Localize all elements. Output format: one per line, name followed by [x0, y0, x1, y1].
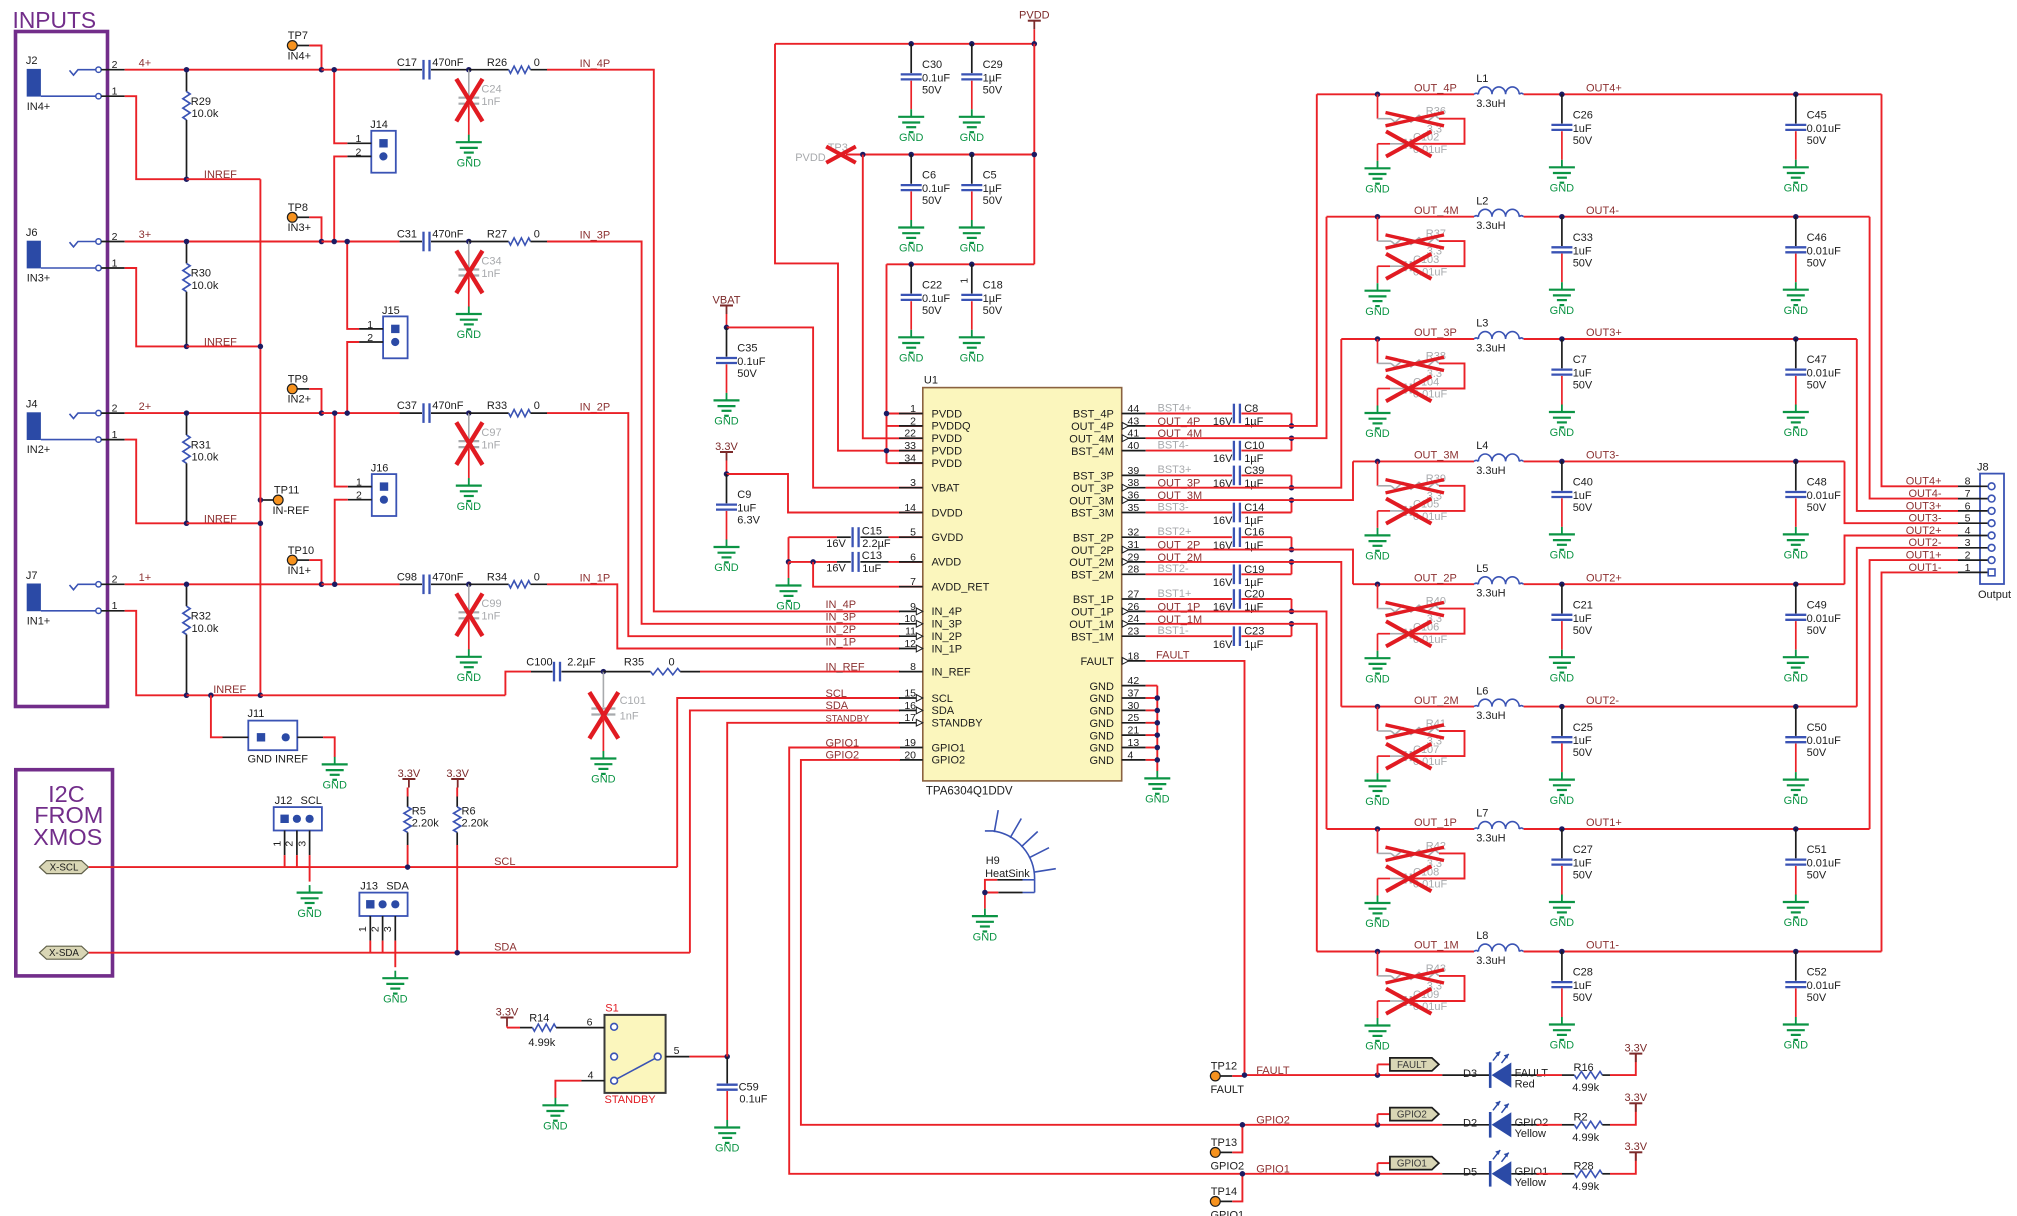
svg-text:C8: C8 — [1244, 403, 1258, 415]
wire filter row OUT3+ — [1341, 338, 1377, 340]
capacitor C100 2.2uF — [531, 671, 553, 673]
junction mid rail C6 — [908, 152, 914, 158]
I2C FROM XMOS section box — [16, 770, 113, 976]
svg-text:C29: C29 — [983, 59, 1003, 71]
svg-text:3: 3 — [382, 926, 394, 932]
junction GND bus — [1155, 708, 1161, 714]
svg-text:GND INREF: GND INREF — [248, 753, 309, 765]
svg-text:0.1uF: 0.1uF — [922, 72, 950, 84]
svg-text:C22: C22 — [922, 280, 942, 292]
svg-text:C21: C21 — [1573, 599, 1593, 611]
capacitor C98 470nF — [400, 583, 422, 585]
capacitor C101 1nF DNP — [602, 672, 604, 707]
capacitor C8 1uF 16V bootstrap — [1146, 413, 1232, 415]
svg-text:R33: R33 — [487, 400, 507, 412]
svg-text:31: 31 — [1128, 539, 1140, 551]
svg-text:8: 8 — [1965, 476, 1971, 488]
capacitor C29 1uF 50V — [971, 44, 973, 73]
junction C16 on OUT_2P — [1289, 547, 1295, 553]
svg-text:1µF: 1µF — [1244, 577, 1263, 589]
wire 3+ row — [125, 241, 187, 243]
junction J16 pin2 — [332, 582, 338, 588]
svg-text:0.01uF: 0.01uF — [1807, 980, 1842, 992]
svg-text:2: 2 — [284, 841, 296, 847]
svg-text:4: 4 — [1128, 749, 1134, 761]
testpoint TP10 IN1+ — [297, 559, 309, 561]
svg-text:10.0k: 10.0k — [192, 623, 219, 635]
svg-text:INREF: INREF — [204, 169, 237, 181]
svg-text:1µF: 1µF — [983, 293, 1002, 305]
capacitor C52 0.01uF 50V — [1795, 952, 1797, 981]
pin 23 BST_1M of U1 — [1122, 635, 1146, 637]
junction GND bus — [1155, 695, 1161, 701]
junction C40 — [1559, 459, 1565, 465]
svg-text:50V: 50V — [1807, 135, 1827, 147]
svg-text:R16: R16 — [1574, 1062, 1594, 1074]
svg-text:20: 20 — [904, 749, 916, 761]
wire OUT3- to J8 — [1845, 461, 1959, 523]
svg-text:GND: GND — [322, 780, 347, 792]
wire SCL to chip pin 15 — [677, 698, 900, 867]
wire R16 to 3.3V — [1610, 1054, 1636, 1076]
wire filter row OUT2- — [1341, 706, 1377, 708]
svg-text:BST_4P: BST_4P — [1073, 409, 1114, 421]
pin 18 FAULT of U1 — [1122, 660, 1146, 662]
wire PVDD rail left drop — [775, 44, 887, 451]
svg-text:1: 1 — [1965, 562, 1971, 574]
ground below C101 — [602, 751, 604, 759]
wire IN_3P to chip pin — [547, 242, 900, 624]
svg-text:GPIO1: GPIO1 — [1256, 1164, 1290, 1176]
capacitor C48 0.01uF 50V — [1795, 461, 1797, 490]
capacitor C10 1uF 16V bootstrap — [1146, 450, 1232, 452]
wire filter row OUT2+ — [1353, 583, 1378, 585]
svg-text:GND: GND — [1365, 428, 1390, 440]
svg-text:0: 0 — [534, 57, 540, 69]
svg-text:SDA: SDA — [386, 881, 409, 893]
wire SDA — [89, 952, 690, 954]
svg-text:GND: GND — [1145, 794, 1170, 806]
wire L1 to output caps — [1524, 93, 1562, 95]
ground at J11 — [334, 757, 336, 765]
svg-text:GND: GND — [1550, 550, 1575, 562]
svg-text:J12: J12 — [275, 795, 293, 807]
wire INREF row — [187, 178, 261, 180]
svg-text:R32: R32 — [191, 611, 211, 623]
svg-text:C19: C19 — [1244, 564, 1264, 576]
svg-text:0: 0 — [534, 571, 540, 583]
svg-text:OUT1-: OUT1- — [1909, 562, 1942, 574]
svg-text:GND: GND — [1550, 427, 1575, 439]
svg-text:3.3V: 3.3V — [1624, 1092, 1647, 1104]
junction INREF at R — [184, 693, 190, 699]
junction snubber branch R40 — [1375, 581, 1381, 587]
junction tag GPIO2 — [1375, 1122, 1381, 1128]
svg-text:IN2+: IN2+ — [27, 444, 51, 456]
pin 7 of J8 OUT4- — [1958, 498, 1988, 500]
pin 9 IN_4P of U1 — [899, 610, 923, 612]
svg-text:OUT1+: OUT1+ — [1906, 550, 1942, 562]
wire row to series cap — [322, 241, 400, 243]
wire L3 to output caps — [1524, 338, 1562, 340]
wire snubber R37 to C103 — [1413, 241, 1465, 266]
junction snubber branch R38 — [1375, 336, 1381, 342]
svg-text:1uF: 1uF — [737, 503, 756, 515]
junction INREF at R — [184, 521, 190, 527]
resistor R29 10.0k — [186, 70, 188, 92]
testpoint TP7 IN4+ — [297, 45, 309, 47]
junction C27 — [1559, 826, 1565, 832]
svg-text:3.3uH: 3.3uH — [1476, 833, 1505, 845]
wire filter row OUT1+ — [1327, 828, 1378, 830]
wire J12 pin3 to ground — [309, 855, 311, 882]
svg-text:C7: C7 — [1573, 354, 1587, 366]
svg-text:50V: 50V — [1573, 257, 1593, 269]
wire TP8 to row — [309, 217, 321, 241]
junction C7 — [1559, 336, 1565, 342]
resistor R43 3.3 DNP snubber — [1377, 952, 1379, 976]
pin 16 SDA of U1 — [899, 709, 923, 711]
svg-text:1uF: 1uF — [1573, 980, 1592, 992]
capacitor C46 0.01uF 50V — [1795, 217, 1797, 246]
svg-text:30: 30 — [1128, 700, 1140, 712]
svg-text:50V: 50V — [1807, 992, 1827, 1004]
svg-text:IN_REF: IN_REF — [826, 661, 865, 673]
svg-text:16V: 16V — [1213, 639, 1233, 651]
svg-text:1µF: 1µF — [1244, 515, 1263, 527]
svg-text:12: 12 — [904, 638, 916, 650]
wire L2 to output caps — [1524, 216, 1562, 218]
svg-text:BST_2P: BST_2P — [1073, 532, 1114, 544]
junction C20 on OUT_1P — [1289, 609, 1295, 615]
ground below C106 — [1377, 651, 1379, 659]
svg-text:C30: C30 — [922, 59, 942, 71]
capacitor C24 1nF DNP — [468, 70, 470, 97]
svg-text:470nF: 470nF — [432, 229, 463, 241]
svg-text:23: 23 — [1128, 626, 1140, 638]
pin 5 GVDD of U1 — [899, 536, 923, 538]
wire INREF row — [187, 694, 261, 696]
svg-text:R14: R14 — [529, 1013, 549, 1025]
INPUTS section box — [16, 32, 108, 707]
junction C28 — [1559, 949, 1565, 955]
resistor R14 4.99k — [507, 1027, 520, 1029]
pin 34 PVDD of U1 — [899, 462, 923, 464]
svg-text:C14: C14 — [1244, 502, 1264, 514]
resistor R31 10.0k — [186, 413, 188, 435]
svg-text:37: 37 — [1128, 687, 1140, 699]
wire H9 to ground — [985, 880, 998, 893]
junction R5 on SCL — [405, 864, 411, 870]
svg-text:0: 0 — [534, 400, 540, 412]
wire L8 to output caps — [1524, 951, 1562, 953]
wire INREF step up to C100 — [505, 672, 531, 696]
svg-text:0: 0 — [669, 657, 675, 669]
junction J15 pin2 — [344, 410, 350, 416]
svg-text:10.0k: 10.0k — [192, 280, 219, 292]
svg-text:IN1+: IN1+ — [27, 615, 51, 627]
resistor R30 10.0k — [186, 242, 188, 264]
svg-text:GND: GND — [1365, 796, 1390, 808]
junction GND bus — [1155, 757, 1161, 763]
svg-text:R34: R34 — [487, 571, 507, 583]
testpoint TP11 IN-REF — [273, 495, 283, 505]
pin 12 IN_1P of U1 — [899, 648, 923, 650]
wire TP7 to row — [309, 46, 321, 70]
wire OUT3+ to J8 — [1857, 339, 1958, 511]
pin 1 PVDD of U1 — [899, 413, 923, 415]
svg-text:3: 3 — [910, 477, 916, 489]
resistor R39 3.3 DNP snubber — [1377, 461, 1379, 485]
junction C39 on OUT_3P — [1289, 485, 1295, 491]
svg-text:J11: J11 — [248, 708, 265, 720]
svg-text:BST_1P: BST_1P — [1073, 594, 1114, 606]
ground at J13 — [394, 971, 396, 979]
svg-text:IN_4P: IN_4P — [932, 606, 963, 618]
pin 22 PVDD of U1 — [899, 437, 923, 439]
capacitor C22 0.1uF 50V — [910, 264, 912, 293]
svg-text:OUT2+: OUT2+ — [1906, 525, 1942, 537]
svg-text:C28: C28 — [1573, 967, 1593, 979]
resistor R16 4.99k — [1511, 1074, 1536, 1076]
pin 17 STANDBY of U1 — [899, 722, 923, 724]
capacitor C51 0.01uF 50V — [1795, 829, 1797, 858]
svg-text:SDA: SDA — [932, 705, 955, 717]
capacitor C23 1uF 16V bootstrap — [1146, 635, 1232, 637]
svg-text:8: 8 — [910, 661, 916, 673]
resistor R2 4.99k — [1511, 1124, 1536, 1126]
capacitor C30 0.1uF 50V — [910, 44, 912, 73]
wire TP9 to row — [309, 389, 321, 413]
junction TP10 branch — [319, 582, 325, 588]
svg-text:R27: R27 — [487, 229, 507, 241]
svg-text:7: 7 — [1965, 488, 1971, 500]
wire OUT_2P to filter row — [1146, 550, 1353, 585]
wire IN_4P to chip pin — [547, 70, 900, 612]
capacitor C50 0.01uF 50V — [1795, 707, 1797, 736]
junction GND bus — [1155, 720, 1161, 726]
svg-text:OUT_3P: OUT_3P — [1071, 483, 1114, 495]
svg-text:GPIO2: GPIO2 — [826, 750, 860, 762]
wire snubber R43 to C109 — [1413, 976, 1465, 1001]
svg-text:2: 2 — [1965, 550, 1971, 562]
svg-text:GND: GND — [1365, 551, 1390, 563]
svg-text:3.3uH: 3.3uH — [1476, 220, 1505, 232]
svg-text:IN_3P: IN_3P — [580, 230, 611, 242]
svg-text:GND: GND — [1089, 743, 1114, 755]
svg-text:TP14: TP14 — [1211, 1186, 1237, 1198]
wire INREF bottom row — [260, 694, 505, 696]
svg-text:3: 3 — [296, 841, 308, 847]
wire C20 to OUT_1P — [1291, 599, 1293, 611]
svg-text:IN4+: IN4+ — [27, 101, 51, 113]
svg-text:10: 10 — [904, 613, 916, 625]
junction C33 — [1559, 214, 1565, 220]
svg-text:GND: GND — [1089, 718, 1114, 730]
wire OUT_3P to filter row — [1146, 339, 1342, 488]
svg-text:1uF: 1uF — [1573, 123, 1592, 135]
svg-text:OUT3+: OUT3+ — [1906, 500, 1942, 512]
port X-SDA — [40, 946, 89, 959]
svg-text:OUT_4M: OUT_4M — [1414, 205, 1459, 217]
wire J13 pin3 to ground — [394, 941, 396, 968]
pin 7 AVDD_RET of U1 — [899, 586, 923, 588]
svg-text:16V: 16V — [826, 538, 846, 550]
svg-text:R31: R31 — [191, 439, 211, 451]
capacitor C37 470nF — [400, 412, 422, 414]
pin 15 SCL of U1 — [899, 697, 923, 699]
ground below C104 — [1377, 406, 1379, 414]
wire OUT_4M to filter row — [1146, 217, 1327, 439]
svg-text:39: 39 — [1128, 465, 1140, 477]
svg-text:1: 1 — [357, 926, 369, 932]
junction 2+ at R — [184, 410, 190, 416]
svg-text:50V: 50V — [922, 195, 942, 207]
svg-text:C17: C17 — [397, 57, 417, 69]
svg-text:GND: GND — [960, 243, 985, 255]
wire OUT4- to J8 — [1870, 217, 1958, 499]
junction lower rail C22 — [908, 262, 914, 268]
wire C23 to OUT_1M — [1291, 624, 1293, 636]
svg-text:1µF: 1µF — [1244, 453, 1263, 465]
junction C52 — [1793, 949, 1799, 955]
junction snubber branch R42 — [1375, 826, 1381, 832]
svg-text:PVDDQ: PVDDQ — [932, 421, 972, 433]
wire filter row OUT1- — [1317, 951, 1378, 953]
junction C49 — [1793, 581, 1799, 587]
svg-text:6: 6 — [587, 1016, 593, 1028]
svg-text:GND: GND — [1089, 730, 1114, 742]
svg-text:1uF: 1uF — [1573, 735, 1592, 747]
wire C10 to OUT_4M — [1291, 438, 1293, 450]
svg-text:470nF: 470nF — [432, 57, 463, 69]
pin 41 OUT_4M of U1 — [1122, 437, 1146, 439]
svg-text:L1: L1 — [1476, 73, 1488, 85]
junction J11 branch — [208, 693, 214, 699]
svg-text:GND: GND — [1784, 183, 1809, 195]
capacitor C13 1uF 16V AVDD — [789, 561, 837, 563]
wire TP10 to row — [309, 560, 321, 584]
junction snubber C24 — [466, 67, 472, 73]
svg-text:STANDBY: STANDBY — [826, 712, 870, 723]
junction mid rail C5 — [969, 152, 975, 158]
svg-text:C18: C18 — [983, 280, 1003, 292]
junction AVDD gnd node — [786, 559, 792, 565]
svg-text:IN_3P: IN_3P — [932, 619, 963, 631]
svg-text:C49: C49 — [1807, 599, 1827, 611]
wire C16 to OUT_2P — [1291, 537, 1293, 549]
junction C46 — [1793, 214, 1799, 220]
svg-text:1µF: 1µF — [983, 183, 1002, 195]
svg-text:GPIO1: GPIO1 — [1397, 1159, 1427, 1170]
svg-text:FAULT: FAULT — [1256, 1065, 1290, 1077]
junction lower rail C18 — [969, 262, 975, 268]
wire GPIO1 from pin 19 — [789, 748, 1242, 1174]
svg-text:GND: GND — [457, 329, 482, 341]
svg-text:1nF: 1nF — [481, 268, 500, 280]
svg-text:SCL: SCL — [301, 795, 322, 807]
pin 37 GND of U1 — [1122, 697, 1146, 699]
svg-text:5: 5 — [674, 1045, 680, 1057]
svg-text:15: 15 — [904, 687, 916, 699]
svg-text:2: 2 — [910, 415, 916, 427]
svg-text:GPIO2: GPIO2 — [1256, 1115, 1290, 1127]
testpoint TP8 IN3+ — [297, 216, 309, 218]
junction GND bus — [1155, 732, 1161, 738]
junction PVDD pin 33 — [884, 448, 890, 454]
wire VBAT to pin 3 — [727, 327, 923, 487]
svg-text:IN_1P: IN_1P — [932, 643, 963, 655]
junction 3.3V C9 — [724, 471, 730, 477]
svg-text:GND: GND — [899, 353, 924, 365]
svg-text:IN2+: IN2+ — [288, 394, 312, 406]
svg-text:C10: C10 — [1244, 440, 1264, 452]
junction tag GPIO1 — [1375, 1171, 1381, 1177]
svg-text:1uF: 1uF — [1573, 613, 1592, 625]
junction TP14 — [1240, 1171, 1246, 1177]
svg-text:0.01uF: 0.01uF — [1807, 735, 1842, 747]
svg-text:34: 34 — [904, 452, 916, 464]
svg-text:C40: C40 — [1573, 477, 1593, 489]
svg-text:GND: GND — [899, 243, 924, 255]
ground at J12 — [309, 885, 311, 893]
ground at U1 GND bus — [1156, 771, 1158, 779]
pin 42 GND of U1 — [1122, 685, 1146, 687]
svg-text:SCL: SCL — [932, 693, 953, 705]
svg-text:GND: GND — [1784, 550, 1809, 562]
svg-text:C52: C52 — [1807, 967, 1827, 979]
capacitor C20 1uF 16V bootstrap — [1146, 598, 1232, 600]
pin 1 of H9 — [997, 879, 1022, 881]
svg-text:OUT_4M: OUT_4M — [1069, 433, 1114, 445]
capacitor C49 0.01uF 50V — [1795, 584, 1797, 613]
wire snubber R36 to C102 — [1413, 119, 1465, 144]
pin 24 OUT_1M of U1 — [1122, 623, 1146, 625]
svg-text:SDA: SDA — [494, 941, 517, 953]
svg-text:C45: C45 — [1807, 110, 1827, 122]
svg-text:IN_3P: IN_3P — [826, 612, 857, 624]
svg-text:H9: H9 — [986, 855, 1000, 867]
svg-text:1nF: 1nF — [481, 440, 500, 452]
wire PVDD lower rail — [887, 263, 1035, 265]
capacitor C59 0.1uF — [726, 1057, 728, 1084]
svg-text:GND: GND — [1550, 183, 1575, 195]
junction C45 — [1793, 92, 1799, 98]
junction snubber C99 — [466, 582, 472, 588]
capacitor C99 1nF DNP — [468, 584, 470, 611]
svg-text:TP10: TP10 — [288, 545, 314, 557]
svg-text:19: 19 — [904, 737, 916, 749]
svg-text:GND: GND — [543, 1121, 568, 1133]
svg-text:3: 3 — [1965, 537, 1971, 549]
resistor R26 0 — [469, 69, 509, 71]
svg-text:R28: R28 — [1574, 1161, 1594, 1173]
svg-text:OUT_4P: OUT_4P — [1071, 421, 1114, 433]
ground below C59 — [726, 1120, 728, 1128]
svg-text:C39: C39 — [1244, 465, 1264, 477]
svg-text:IN_2P: IN_2P — [580, 401, 611, 413]
svg-text:C99: C99 — [481, 598, 501, 610]
svg-text:PVDD: PVDD — [932, 458, 963, 470]
pin 21 GND of U1 — [1122, 734, 1146, 736]
svg-text:GND: GND — [1365, 1041, 1390, 1053]
svg-text:OUT_1P: OUT_1P — [1071, 607, 1114, 619]
wire snubber R39 to C105 — [1413, 486, 1465, 511]
capacitor C34 1nF DNP — [468, 242, 470, 269]
wire J15 pin2 to lower row — [347, 342, 359, 413]
svg-text:GND: GND — [1365, 184, 1390, 196]
svg-text:Output: Output — [1978, 589, 2011, 601]
